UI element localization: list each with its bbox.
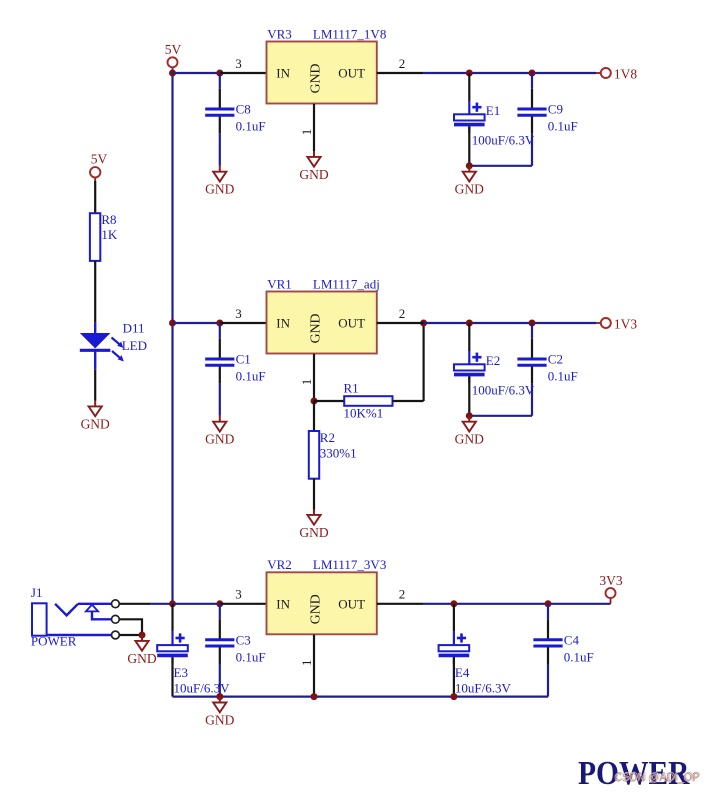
- pin circle J1-1: [112, 600, 120, 608]
- svg-text:GND: GND: [205, 712, 234, 727]
- svg-text:2: 2: [399, 56, 406, 71]
- svg-text:R2: R2: [320, 430, 335, 445]
- junction C2 tap: [529, 320, 536, 327]
- wire: VR1 GND pin 1 to adj node: [313, 354, 315, 401]
- wire: gnd link E2-C2: [469, 415, 532, 417]
- power terminal 5V (LED branch): [90, 152, 108, 181]
- junction VR2 pin1 ground: [311, 693, 318, 700]
- ground below E2: [455, 416, 484, 447]
- svg-text:1: 1: [299, 379, 314, 386]
- wire: C1 bottom down: [219, 384, 221, 416]
- svg-text:LED: LED: [122, 338, 147, 353]
- power terminal 3V3: [599, 573, 622, 604]
- svg-text:2: 2: [399, 306, 406, 321]
- svg-text:OUT: OUT: [338, 66, 365, 81]
- svg-text:VR3: VR3: [267, 26, 292, 41]
- ground below C3: [205, 697, 234, 728]
- wire: R8 to LED: [94, 261, 96, 323]
- wire: E3 bottom to ground bus: [171, 657, 173, 696]
- junction E4 ground: [450, 693, 457, 700]
- wire: VR2 GND pin 1 to ground bus: [313, 635, 315, 697]
- wire: pin 3 of VR1 (IN): [220, 322, 267, 324]
- svg-text:5V: 5V: [91, 152, 108, 167]
- svg-text:3: 3: [235, 587, 242, 602]
- pin circle J1-3: [112, 631, 120, 639]
- ground below C8: [205, 166, 234, 197]
- wire: pin 2 of VR2 (OUT): [377, 603, 424, 605]
- ground below E1: [455, 166, 484, 197]
- svg-text:330%1: 330%1: [320, 445, 357, 460]
- svg-text:10K%1: 10K%1: [344, 406, 384, 421]
- svg-text:IN: IN: [276, 596, 290, 611]
- svg-text:1V8: 1V8: [614, 66, 637, 81]
- capacitor E2: [454, 323, 535, 398]
- wire: input node to C3: [173, 603, 220, 605]
- ground below R2: [299, 509, 328, 540]
- wire: LED to ground: [94, 370, 96, 401]
- svg-text:LM1117_adj: LM1117_adj: [313, 276, 380, 291]
- power terminal 1V8: [596, 66, 637, 81]
- junction E2/C2 ground: [466, 412, 473, 419]
- svg-text:LM1117_3V3: LM1117_3V3: [313, 557, 386, 572]
- junction J1 ground: [139, 632, 146, 639]
- junction C3 ground: [216, 693, 223, 700]
- svg-text:0.1uF: 0.1uF: [548, 369, 578, 384]
- junction E4 tap: [450, 600, 457, 607]
- junction E2 tap: [466, 320, 473, 327]
- wire: E4 bottom to ground bus: [453, 657, 455, 696]
- svg-text:C9: C9: [548, 102, 563, 117]
- junction at 5V bus top: [169, 70, 176, 77]
- wire: E1 bottom to gnd node: [468, 126, 470, 165]
- svg-text:GND: GND: [299, 167, 328, 182]
- wire: VR3 GND pin 1: [313, 104, 315, 151]
- junction adj node: [311, 398, 318, 405]
- capacitor C3: [205, 604, 265, 665]
- wire: E2 bottom to gnd node: [468, 376, 470, 415]
- wire: C3 bottom to ground bus: [219, 665, 221, 697]
- wire: C4 bottom to ground bus: [547, 665, 549, 697]
- svg-text:GND: GND: [455, 432, 484, 447]
- svg-text:LM1117_1V8: LM1117_1V8: [313, 26, 386, 41]
- svg-text:10uF/6.3V: 10uF/6.3V: [455, 681, 512, 696]
- svg-text:C3: C3: [236, 632, 251, 647]
- svg-text:GND: GND: [127, 651, 156, 666]
- svg-text:C4: C4: [564, 632, 580, 647]
- pin circle J1-2: [112, 615, 120, 623]
- svg-text:100uF/6.3V: 100uF/6.3V: [472, 383, 535, 398]
- ground at J1: [127, 635, 156, 666]
- ground at VR3 pin 1: [299, 151, 328, 182]
- svg-text:3: 3: [235, 56, 242, 71]
- svg-text:CSDN @ADI_OP: CSDN @ADI_OP: [615, 770, 700, 784]
- svg-text:GND: GND: [308, 313, 323, 343]
- junction E1 tap: [466, 70, 473, 77]
- svg-text:POWER: POWER: [31, 634, 77, 649]
- svg-text:IN: IN: [276, 316, 290, 331]
- svg-text:1K: 1K: [101, 227, 118, 242]
- capacitor C1: [205, 323, 265, 384]
- svg-text:GND: GND: [308, 594, 323, 624]
- wire: pin 2 of VR3 (OUT): [377, 72, 424, 74]
- wire: pin 3 of VR2 (IN): [220, 603, 267, 605]
- svg-text:1: 1: [299, 660, 314, 667]
- svg-text:C1: C1: [236, 352, 251, 367]
- regulator U VR2 LM1117_3V3: [267, 572, 377, 634]
- capacitor E1: [454, 73, 535, 148]
- regulator U VR1 LM1117_adj: [267, 292, 377, 354]
- junction E1/C9 ground: [466, 162, 473, 169]
- wire: C9 bottom down: [531, 134, 533, 166]
- wire: pin 2 of VR1 (OUT): [377, 322, 424, 324]
- capacitor C8: [205, 73, 265, 134]
- svg-text:R1: R1: [344, 381, 359, 396]
- svg-text:GND: GND: [299, 525, 328, 540]
- svg-text:C8: C8: [236, 102, 251, 117]
- svg-text:0.1uF: 0.1uF: [236, 649, 266, 664]
- capacitor C4: [533, 604, 593, 665]
- svg-text:GND: GND: [308, 63, 323, 93]
- junction C8 tap: [216, 70, 223, 77]
- connector J1 POWER jack: [32, 603, 112, 635]
- svg-text:3V3: 3V3: [599, 573, 622, 588]
- junction C3 tap: [216, 600, 223, 607]
- wire: J1 pin2 down: [119, 619, 142, 635]
- capacitor C9: [517, 73, 577, 134]
- svg-text:R8: R8: [101, 212, 116, 227]
- resistor R2 330%1: [309, 401, 319, 511]
- svg-text:OUT: OUT: [338, 316, 365, 331]
- svg-text:0.1uF: 0.1uF: [548, 119, 578, 134]
- net label 5V: [165, 42, 182, 73]
- svg-text:E2: E2: [486, 353, 500, 368]
- svg-text:10uF/6.3V: 10uF/6.3V: [174, 681, 231, 696]
- svg-text:J1: J1: [31, 585, 43, 600]
- svg-text:0.1uF: 0.1uF: [236, 119, 266, 134]
- capacitor C2: [517, 323, 577, 384]
- power terminal 1V3: [596, 316, 637, 331]
- regulator U VR3 LM1117_1V8: [267, 42, 377, 104]
- svg-text:2: 2: [399, 587, 406, 602]
- svg-text:E1: E1: [486, 103, 500, 118]
- ground below LED: [81, 401, 110, 432]
- svg-text:C2: C2: [548, 352, 563, 367]
- wire: 5V to R8: [94, 181, 96, 213]
- wire: C8 bottom down: [219, 134, 221, 166]
- ground below C1: [205, 416, 234, 447]
- svg-text:0.1uF: 0.1uF: [236, 369, 266, 384]
- wire: OUT net to 1V3 terminal: [424, 322, 596, 324]
- svg-text:E4: E4: [455, 665, 470, 680]
- wire: 5V vertical bus: [171, 73, 173, 604]
- svg-text:VR2: VR2: [267, 557, 292, 572]
- resistor R8 1K: [90, 213, 100, 261]
- wire: OUT net to 3V3 terminal: [424, 603, 611, 605]
- wire: ground bus: [173, 695, 549, 697]
- svg-text:100uF/6.3V: 100uF/6.3V: [472, 133, 535, 148]
- svg-text:GND: GND: [205, 432, 234, 447]
- capacitor E4: [439, 604, 512, 696]
- junction bus to VR1 branch: [169, 320, 176, 327]
- svg-text:E3: E3: [174, 665, 188, 680]
- svg-text:1V3: 1V3: [614, 316, 637, 331]
- svg-text:0.1uF: 0.1uF: [564, 649, 594, 664]
- junction C4 tap: [545, 600, 552, 607]
- wire: bus to C1 node: [173, 322, 220, 324]
- wire: J1 pin1 to 5V node: [119, 603, 150, 605]
- wire: R1 to OUT net: [423, 323, 425, 401]
- junction bus / J1 / E3: [169, 600, 176, 607]
- capacitor E3: [157, 604, 230, 696]
- svg-text:D11: D11: [123, 320, 145, 335]
- diode D11 LED: [80, 323, 124, 370]
- junction R1 feedback tap: [420, 320, 427, 327]
- wire: pin 3 of VR3 (IN): [220, 72, 267, 74]
- svg-text:GND: GND: [205, 182, 234, 197]
- svg-text:GND: GND: [455, 182, 484, 197]
- svg-text:1: 1: [299, 129, 314, 136]
- resistor R1 10K%1: [314, 396, 424, 406]
- wire: J1 pin3: [119, 634, 142, 636]
- svg-text:3: 3: [235, 306, 242, 321]
- svg-text:5V: 5V: [165, 42, 182, 57]
- svg-text:GND: GND: [81, 416, 110, 431]
- wire: C2 bottom down: [531, 384, 533, 416]
- wire: bus to C8 node: [173, 72, 220, 74]
- svg-text:OUT: OUT: [338, 596, 365, 611]
- svg-text:IN: IN: [276, 66, 290, 81]
- junction C1 tap: [216, 320, 223, 327]
- wire: OUT net to 1V8 terminal: [424, 72, 596, 74]
- junction C9 tap: [529, 70, 536, 77]
- wire: gnd link E1-C9: [469, 165, 532, 167]
- svg-text:VR1: VR1: [267, 276, 292, 291]
